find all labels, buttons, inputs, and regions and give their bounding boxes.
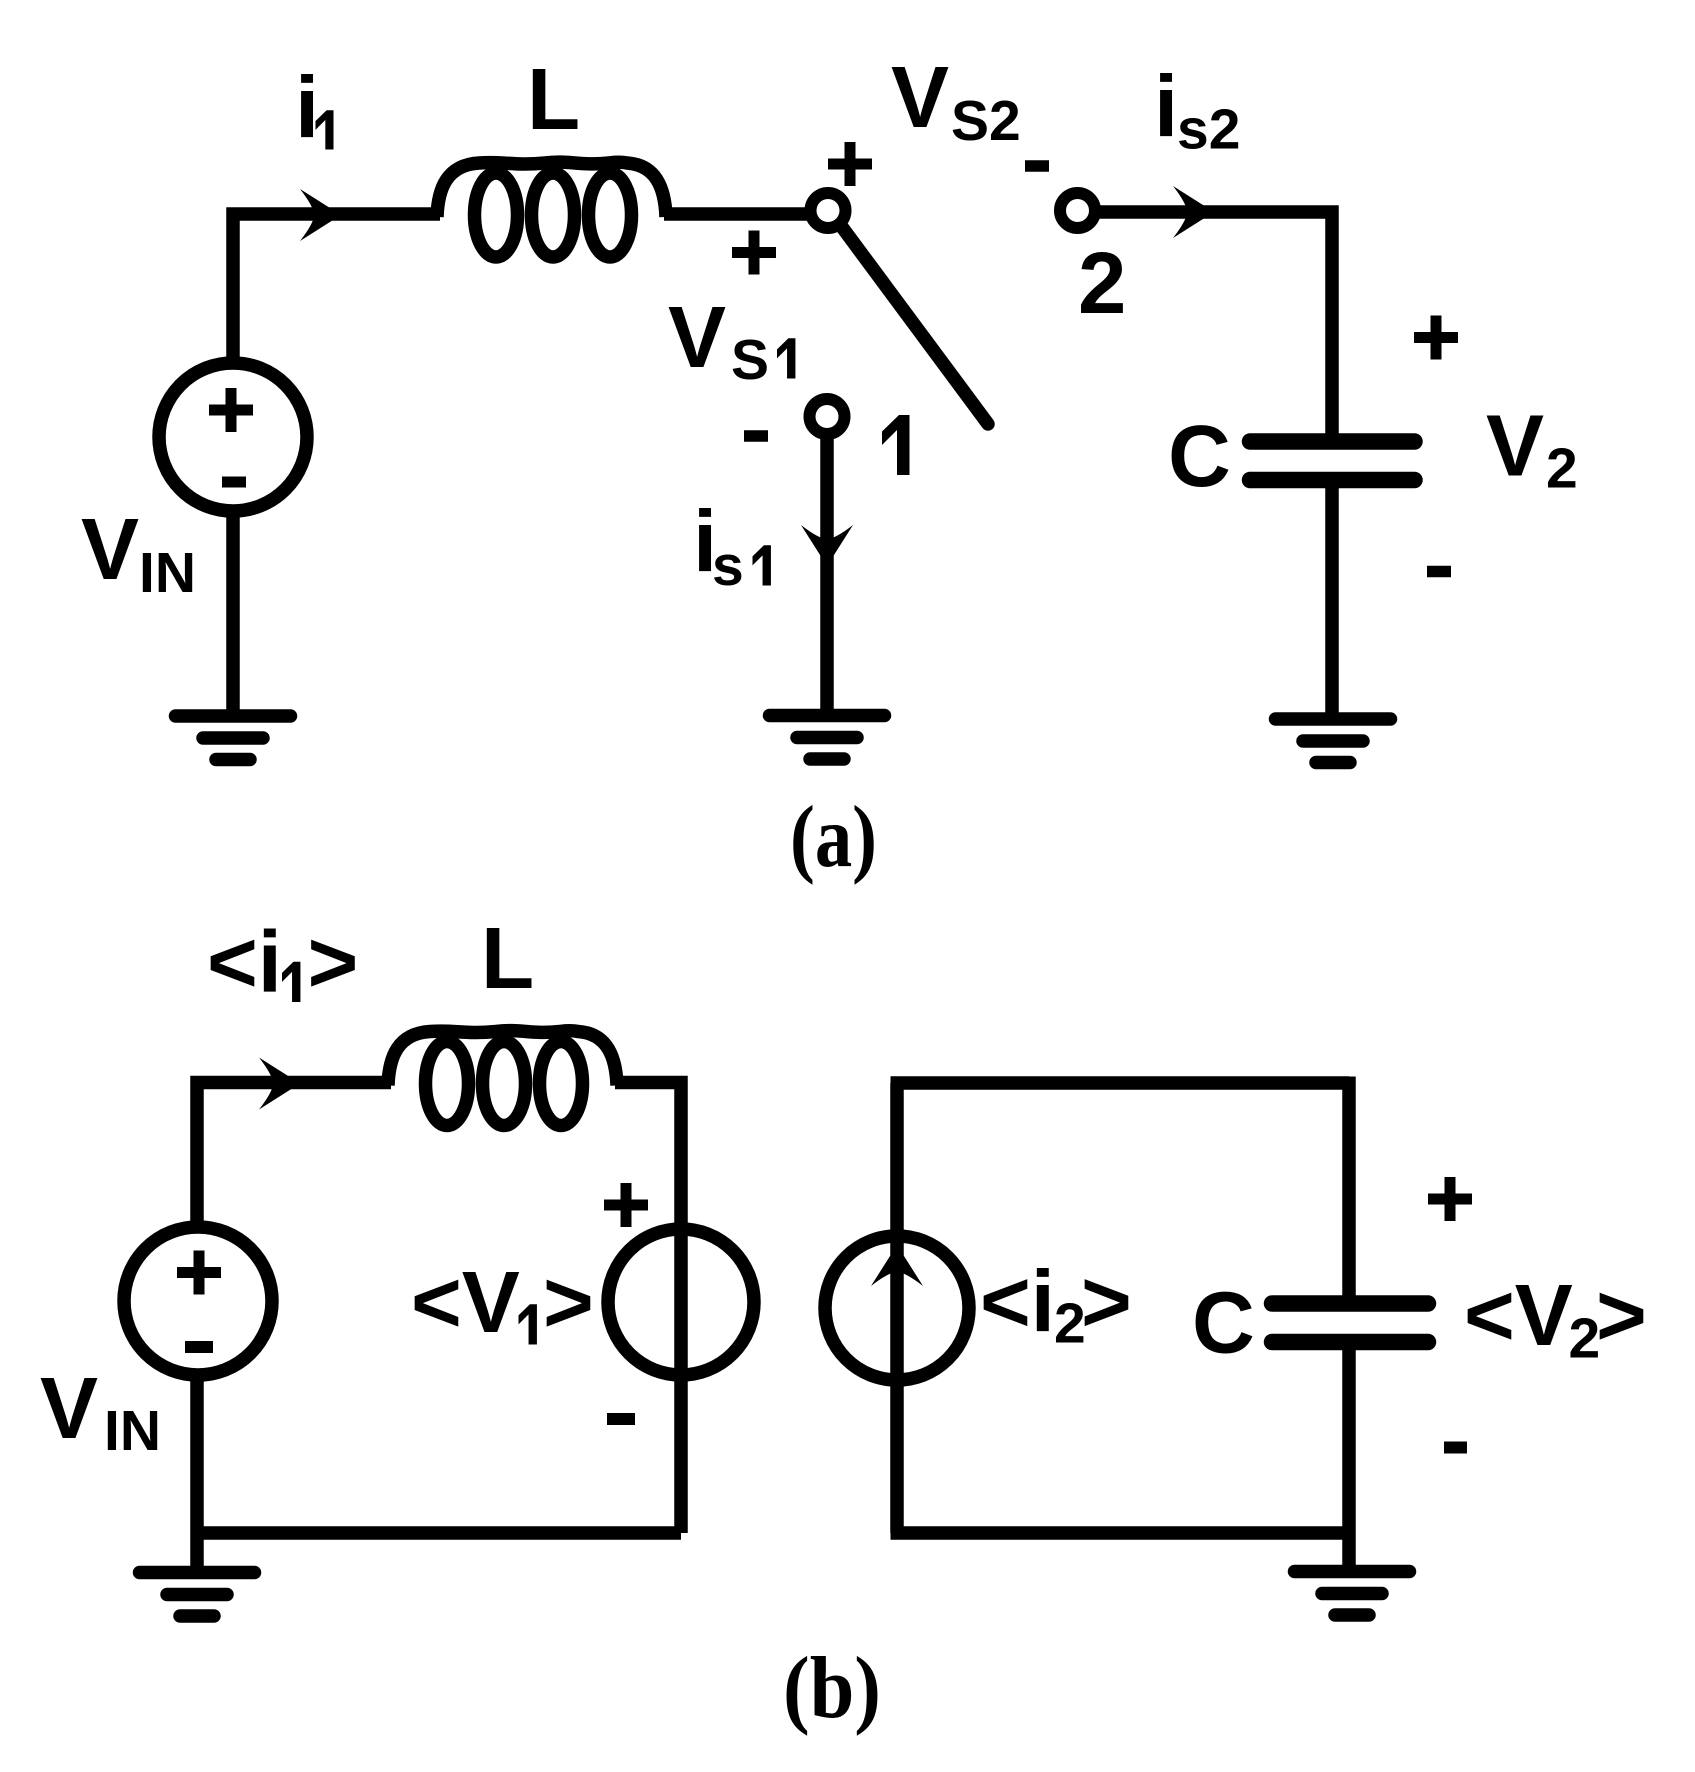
svg-text:IN: IN xyxy=(139,541,196,605)
plus of VS1 xyxy=(732,231,776,275)
arrow avg i1 xyxy=(259,1058,300,1110)
minus of VS2 xyxy=(1025,160,1049,172)
arrow i1 xyxy=(300,189,341,241)
ground (capacitor, fig b) xyxy=(1295,1572,1410,1616)
plus of V2 xyxy=(1414,316,1458,360)
svg-text:IN: IN xyxy=(104,1399,161,1463)
plus inside VIN (fig b) xyxy=(177,1251,221,1295)
arrow inside i2 source (upward) xyxy=(871,1245,923,1286)
plus at switch pole xyxy=(828,142,872,186)
wire capacitor bottom through junction to ground (fig b) xyxy=(1342,1348,1356,1567)
svg-text:L: L xyxy=(527,51,580,148)
ground (switch branch, fig a) xyxy=(770,716,885,760)
svg-text:L: L xyxy=(481,910,534,1007)
controlled voltage source <V1> xyxy=(608,1229,754,1375)
svg-text:<i: <i xyxy=(207,914,282,1011)
arrow is1 (downward) xyxy=(801,525,853,566)
svg-text:i: i xyxy=(295,60,319,157)
wire capacitor bottom to ground xyxy=(1325,486,1339,715)
controlled current source <i2> xyxy=(825,1236,969,1380)
plus of <V2> xyxy=(1428,1177,1472,1221)
wire node 2 to capacitor top xyxy=(1095,212,1332,436)
wire Vin bottom to ground xyxy=(226,508,240,712)
minus of VS1 xyxy=(744,430,768,442)
minus of <V2> xyxy=(1444,1442,1467,1454)
svg-text:S2: S2 xyxy=(951,89,1021,153)
throw node 1 circle xyxy=(810,399,845,434)
svg-text:i: i xyxy=(1154,59,1178,156)
svg-text:2: 2 xyxy=(1546,437,1578,501)
capacitor C plates (fig b) xyxy=(1272,1304,1428,1343)
svg-text:S: S xyxy=(731,328,769,392)
svg-text:>: > xyxy=(1596,1267,1647,1364)
switch pole node circle xyxy=(811,193,846,228)
svg-text:>: > xyxy=(308,914,359,1011)
svg-text:V: V xyxy=(668,289,726,386)
voltage source VIN (fig a) xyxy=(159,363,307,511)
svg-text:>: > xyxy=(1081,1254,1132,1351)
minus inside VIN xyxy=(222,477,246,488)
svg-text:s2: s2 xyxy=(1177,98,1240,162)
svg-text:<V: <V xyxy=(1464,1267,1573,1364)
svg-text:<V: <V xyxy=(411,1254,520,1351)
wire Vin top to inductor xyxy=(233,214,440,367)
bottom wire loop 1 (fig b) xyxy=(197,1526,681,1540)
wire Vin bottom through junction to ground xyxy=(190,1371,204,1568)
svg-text:C: C xyxy=(1168,408,1231,505)
label 1 xyxy=(882,415,910,475)
svg-text:V: V xyxy=(891,49,949,146)
svg-text:<i: <i xyxy=(980,1254,1055,1351)
plus of <V1> xyxy=(604,1183,648,1227)
svg-text:V: V xyxy=(1486,398,1544,495)
svg-text:2: 2 xyxy=(1078,235,1126,332)
minus of V2 xyxy=(1427,566,1451,578)
svg-text:V: V xyxy=(81,501,139,598)
ground (Vin, fig b) xyxy=(140,1573,255,1617)
minus of <V1> xyxy=(607,1413,635,1425)
svg-text:(b): (b) xyxy=(783,1640,881,1737)
wire Vin top to inductor (fig b) xyxy=(197,1083,391,1232)
ground (Vin, fig a) xyxy=(176,716,291,760)
wire inductor to corner and down through V1 xyxy=(615,1083,681,1534)
capacitor C plates (fig a) xyxy=(1250,442,1415,481)
switch lever xyxy=(842,227,988,424)
voltage source VIN (fig b) xyxy=(124,1227,272,1375)
throw node 2 circle xyxy=(1060,193,1095,228)
loop 2 left wire through i2 source xyxy=(890,1083,904,1533)
arrow is2 xyxy=(1173,186,1214,238)
svg-text:>: > xyxy=(543,1254,594,1351)
wire node 1 down to ground xyxy=(820,434,834,711)
svg-text:V: V xyxy=(40,1360,98,1457)
loop 2 top wire xyxy=(891,1076,1350,1090)
svg-text:(a): (a) xyxy=(790,789,877,886)
inductor L (fig b) xyxy=(388,1031,617,1126)
wire loop2 right top to capacitor xyxy=(1342,1077,1356,1298)
plus inside VIN xyxy=(209,388,253,432)
ground (capacitor, fig a) xyxy=(1276,719,1391,763)
svg-text:s: s xyxy=(712,534,744,598)
inductor L (fig a) xyxy=(437,162,666,257)
svg-text:C: C xyxy=(1192,1275,1255,1372)
minus inside VIN (fig b) xyxy=(185,1341,213,1353)
wire inductor to switch pole xyxy=(664,207,812,221)
loop 2 bottom wire xyxy=(891,1526,1350,1540)
